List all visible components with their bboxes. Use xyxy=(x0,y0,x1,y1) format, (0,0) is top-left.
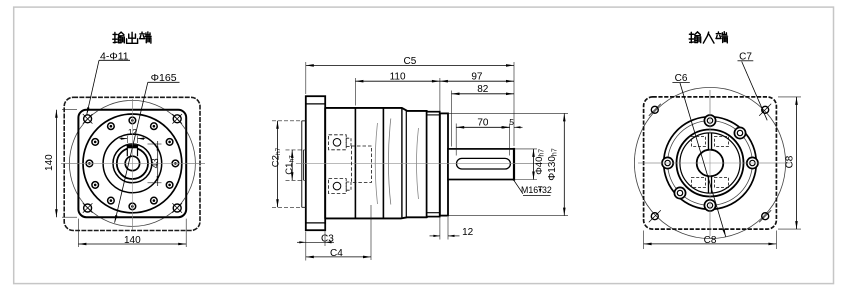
svg-text:82: 82 xyxy=(477,84,489,95)
svg-text:C5: C5 xyxy=(404,56,417,67)
svg-text:C8: C8 xyxy=(704,235,717,246)
svg-text:C8: C8 xyxy=(784,155,795,168)
svg-text:12: 12 xyxy=(462,227,474,238)
svg-text:M16: M16 xyxy=(521,185,538,195)
svg-text:110: 110 xyxy=(390,72,406,83)
svg-text:C4: C4 xyxy=(330,248,343,259)
svg-text:70: 70 xyxy=(477,117,489,128)
svg-text:43: 43 xyxy=(150,158,160,168)
svg-text:32: 32 xyxy=(542,185,552,195)
svg-text:5: 5 xyxy=(509,117,514,127)
svg-text:140: 140 xyxy=(124,235,141,246)
svg-text:C3: C3 xyxy=(321,234,334,245)
svg-text:97: 97 xyxy=(471,72,483,83)
svg-text:140: 140 xyxy=(44,154,55,171)
